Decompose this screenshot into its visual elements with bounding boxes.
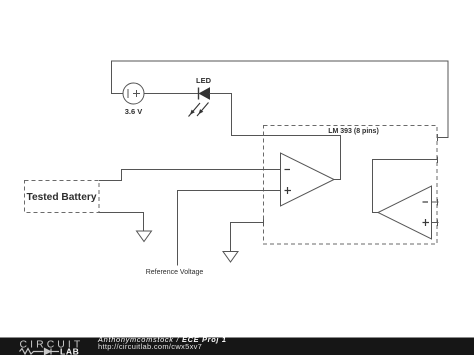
wire tested battery to inverting input — [99, 170, 280, 181]
svg-text:LAB: LAB — [60, 347, 79, 355]
svg-text:http://circuitlab.com/cwx5xv7: http://circuitlab.com/cwx5xv7 — [98, 342, 202, 351]
tested battery dashed box — [25, 181, 100, 213]
wire op-amp U2 output loop to pin — [373, 160, 438, 213]
ground symbol 2 — [223, 252, 238, 263]
pin tick V+ — [437, 134, 439, 141]
pin tick U2 inverting — [437, 199, 439, 206]
wire IC ground pin to ground — [231, 223, 265, 252]
pin tick gnd — [263, 220, 265, 227]
op-amp U2 comparator B — [378, 186, 432, 239]
wire battery plus to LED — [144, 93, 198, 95]
pin stub U2 inverting — [432, 201, 439, 203]
svg-text:3.6 V: 3.6 V — [125, 107, 143, 116]
wire tested battery to ground — [99, 213, 144, 232]
op-amp U1 comparator A — [281, 153, 335, 206]
LED light arrow 1 — [189, 103, 201, 117]
LED light arrow 2 — [197, 103, 209, 117]
svg-text:LM 393 (8 pins): LM 393 (8 pins) — [328, 128, 379, 135]
wire top loop from battery minus to IC V+ pin — [112, 61, 449, 138]
footer logo resistor and diode — [20, 349, 60, 355]
footer bar — [0, 338, 474, 355]
ground symbol 1 — [137, 231, 152, 242]
svg-text:Tested Battery: Tested Battery — [26, 192, 96, 203]
svg-text:LED: LED — [196, 76, 212, 85]
LED D1 — [199, 88, 210, 100]
pin tick out2 — [437, 157, 439, 164]
svg-text:Reference Voltage: Reference Voltage — [146, 269, 204, 276]
wire LED to op-amp U1 output node — [210, 94, 341, 180]
wire reference voltage to non-inverting input — [178, 191, 281, 266]
battery V1 — [123, 83, 144, 104]
pin tick U2 non-inverting — [437, 220, 439, 227]
IC package LM393 dashed outline — [264, 126, 438, 245]
pin stub U2 non-inverting — [432, 222, 439, 224]
